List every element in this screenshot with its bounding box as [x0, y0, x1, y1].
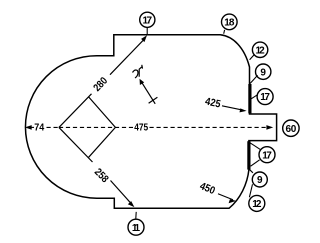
svg-text:9: 9 [260, 67, 266, 78]
svg-text:18: 18 [224, 18, 235, 29]
svg-text:17: 17 [260, 92, 270, 103]
svg-text:17: 17 [262, 150, 272, 161]
svg-text:12: 12 [252, 199, 262, 210]
svg-text:74: 74 [34, 121, 44, 133]
svg-text:425: 425 [204, 96, 222, 111]
svg-text:11: 11 [132, 223, 141, 234]
svg-text:280: 280 [91, 75, 110, 94]
svg-text:450: 450 [198, 180, 217, 197]
svg-text:12: 12 [256, 45, 266, 56]
svg-text:17: 17 [143, 15, 153, 26]
svg-text:475: 475 [134, 121, 148, 133]
svg-text:60: 60 [286, 124, 297, 135]
svg-text:258: 258 [92, 166, 111, 185]
svg-text:9: 9 [257, 175, 263, 186]
